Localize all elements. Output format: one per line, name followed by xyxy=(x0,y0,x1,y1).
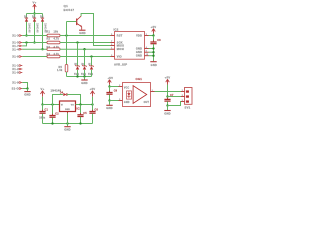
wire GND2 stub xyxy=(149,51,154,53)
svg-text:2: 2 xyxy=(119,85,120,87)
wire X1-6 to R4 xyxy=(22,56,47,58)
junction base column/RST row xyxy=(65,34,67,36)
svg-text:1: 1 xyxy=(111,48,112,50)
wire base column xyxy=(66,22,68,36)
IC2 pin GND3 xyxy=(145,55,149,57)
ground at X1 xyxy=(24,91,30,93)
svg-text:GND: GND xyxy=(81,81,87,85)
junction GND1 xyxy=(152,47,154,49)
wire X1-5 to R2 xyxy=(22,42,47,44)
svg-text:3: 3 xyxy=(119,99,120,101)
svg-text:VDD: VDD xyxy=(136,34,142,38)
svg-text:VI: VI xyxy=(61,105,64,107)
wire to IR ground xyxy=(109,101,111,105)
svg-text:C8: C8 xyxy=(157,39,161,42)
svg-text:GND: GND xyxy=(136,47,142,51)
svg-text:VO: VO xyxy=(71,105,75,107)
wire X1-3 to R1 xyxy=(22,35,47,37)
wire diode top rail xyxy=(27,13,43,15)
svg-text:+5V: +5V xyxy=(151,25,157,29)
wire Q1 base xyxy=(67,21,77,23)
capacitor C5 xyxy=(80,105,82,115)
junction D6/rail xyxy=(83,75,85,77)
junction VCC node xyxy=(108,85,110,87)
wire R2 to IC2 SCK xyxy=(60,42,111,44)
wire D1 to RST row xyxy=(26,22,28,36)
svg-text:GND: GND xyxy=(136,54,142,58)
svg-text:MOSI: MOSI xyxy=(117,47,124,51)
wire OUT to SV1 pin1 xyxy=(155,91,182,93)
svg-text:GND: GND xyxy=(64,128,70,132)
svg-text:4.7k: 4.7k xyxy=(54,38,60,41)
wire GND3 stub xyxy=(149,55,154,57)
svg-text:GND: GND xyxy=(136,50,142,54)
svg-text:GND: GND xyxy=(65,109,70,111)
svg-text:C6: C6 xyxy=(95,109,99,112)
wire output rail xyxy=(76,104,93,106)
junction D3/MOSI xyxy=(41,48,43,50)
capacitor C6 xyxy=(92,105,94,112)
junction D7 row xyxy=(90,55,92,57)
svg-text:9: 9 xyxy=(111,44,112,46)
OG1 OUT pin xyxy=(151,91,155,93)
OG1 amplifier triangle xyxy=(133,86,147,104)
diode D2 xyxy=(34,14,36,18)
svg-text:10: 10 xyxy=(146,54,149,56)
svg-text:5V1: 5V1 xyxy=(88,73,93,76)
IC2 pin GND1 xyxy=(145,48,149,50)
junction VDD node xyxy=(152,34,154,36)
wire X1-4 to R3 xyxy=(22,48,47,50)
svg-text:1: 1 xyxy=(152,90,153,92)
capacitor C7 xyxy=(167,97,169,100)
svg-text:GND: GND xyxy=(24,93,30,97)
wire V+ to diode rail xyxy=(34,10,36,14)
wire to SV1 ground xyxy=(167,106,169,111)
svg-text:X1-1: X1-1 xyxy=(12,64,19,68)
IR receiver OG1 box xyxy=(123,83,151,107)
wire D3 to MOSI row xyxy=(42,22,44,50)
svg-text:S1-G: S1-G xyxy=(12,87,19,91)
SV1 pin1 xyxy=(181,91,185,93)
svg-text:X1-9: X1-9 xyxy=(12,81,19,85)
wire to SV1 pin2 xyxy=(168,96,182,98)
ground at zeners xyxy=(81,79,87,81)
wire D4 bypass right xyxy=(67,95,81,105)
svg-text:C9: C9 xyxy=(114,90,118,93)
svg-text:2: 2 xyxy=(146,34,147,36)
svg-text:3: 3 xyxy=(182,100,183,102)
IC2 pin SCK xyxy=(111,42,115,44)
wire R5 to zener rail xyxy=(66,72,68,77)
ground at regulator xyxy=(64,126,70,128)
capacitor C8 xyxy=(153,40,155,41)
wire C8 to gnd column xyxy=(153,44,155,61)
wire bottom rail xyxy=(43,123,93,125)
svg-text:SV1: SV1 xyxy=(185,105,191,109)
diode D3 xyxy=(42,14,44,18)
wire to ground symbol xyxy=(67,124,69,127)
wire V+ down xyxy=(42,97,44,105)
svg-text:5V1: 5V1 xyxy=(81,73,86,76)
transistor Q1 xyxy=(76,19,78,26)
wire VDD to +5V xyxy=(149,35,154,37)
svg-text:100n: 100n xyxy=(39,117,45,119)
junction V+ input rail xyxy=(41,103,43,105)
svg-text:5V1: 5V1 xyxy=(74,73,79,76)
wire VCC to OG1 xyxy=(110,86,119,88)
svg-text:1.5k: 1.5k xyxy=(57,69,63,72)
capacitor C2 xyxy=(52,105,54,116)
svg-text:GND: GND xyxy=(79,31,85,35)
svg-text:V+: V+ xyxy=(41,87,45,91)
svg-text:C2: C2 xyxy=(55,113,59,116)
wire gnd to OG1 xyxy=(110,100,119,102)
wire Q1 collector to MISO xyxy=(81,14,110,46)
svg-text:+5V: +5V xyxy=(107,76,113,80)
svg-text:C5: C5 xyxy=(83,112,87,115)
svg-text:IC2: IC2 xyxy=(114,27,119,31)
svg-text:1: 1 xyxy=(182,90,183,92)
svg-text:C7: C7 xyxy=(170,94,174,97)
wire GND1 stub xyxy=(149,48,154,50)
svg-text:1N4148: 1N4148 xyxy=(35,23,38,33)
wire IC1 gnd pin xyxy=(67,112,69,114)
connector SV1 box xyxy=(185,88,193,105)
svg-text:5: 5 xyxy=(111,34,112,36)
wire rail to ground xyxy=(84,77,86,80)
IC2 pin GND2 xyxy=(145,51,149,53)
svg-text:1N4148: 1N4148 xyxy=(27,23,30,33)
wire D2 to SCK row xyxy=(34,22,36,43)
wire to C8 xyxy=(153,36,155,43)
ground at SV1 xyxy=(164,110,170,112)
svg-text:BC547: BC547 xyxy=(64,8,75,12)
wire R1 to IC2 RST xyxy=(60,35,111,37)
wire input rail xyxy=(43,104,60,106)
svg-text:+5V: +5V xyxy=(165,76,171,80)
junction GND3 xyxy=(152,55,154,57)
wire X1-7 jog to SCK row xyxy=(22,43,26,46)
SV1 pin3 xyxy=(181,101,185,103)
IC2 pin VDD xyxy=(145,35,149,37)
IC2 pin MOSI xyxy=(111,48,115,50)
junction gnd jog xyxy=(26,87,28,89)
junction C5 bottom xyxy=(79,122,81,124)
svg-text:6: 6 xyxy=(146,51,147,53)
junction gnd drop xyxy=(66,122,68,124)
wire R3 to IC2 MOSI xyxy=(60,48,111,50)
svg-text:X1-8: X1-8 xyxy=(12,71,19,75)
junction +5V/pin2 xyxy=(166,95,168,97)
svg-text:R2: R2 xyxy=(47,38,51,41)
junction C7 bottom xyxy=(166,104,168,106)
IC2 box xyxy=(115,32,145,60)
svg-text:OUT: OUT xyxy=(144,102,150,104)
svg-text:4.7k: 4.7k xyxy=(54,46,60,49)
wire +5V down to pin2 node xyxy=(167,85,169,97)
capacitor C1 xyxy=(42,105,44,112)
svg-text:MISO: MISO xyxy=(117,44,124,48)
wire gnd jog to pin3 xyxy=(168,102,182,106)
wire D4 bypass left xyxy=(53,95,63,105)
junction D1/RST xyxy=(25,34,27,36)
voltage regulator IC1 xyxy=(60,101,76,112)
svg-text:VCC: VCC xyxy=(124,88,130,90)
svg-text:D4: D4 xyxy=(60,92,64,95)
junction C5/D4 column xyxy=(79,103,81,105)
wire +5V to VCC node xyxy=(109,85,111,87)
svg-text:+5V: +5V xyxy=(90,87,96,91)
capacitor C9 xyxy=(109,87,111,93)
wire X1-9 to gnd jog xyxy=(22,83,27,89)
svg-text:X1-6: X1-6 xyxy=(12,55,19,59)
junction GND2 xyxy=(152,51,154,53)
IC2 pin VIO xyxy=(111,56,115,58)
wire S1-G to gnd xyxy=(22,88,27,90)
junction D2/SCK xyxy=(33,41,35,43)
svg-text:GND: GND xyxy=(124,102,130,104)
junction X1-7 jog xyxy=(25,41,27,43)
svg-text:GND: GND xyxy=(164,111,170,115)
svg-text:X1-5: X1-5 xyxy=(12,41,19,45)
svg-text:RST: RST xyxy=(117,34,123,38)
IC2 pin RST xyxy=(111,35,115,37)
junction D6/MOSI row xyxy=(83,48,85,50)
ground at Q1 emitter xyxy=(79,29,85,31)
ground at IR xyxy=(106,104,112,106)
svg-text:GND: GND xyxy=(151,63,157,67)
svg-text:AVR_ISP: AVR_ISP xyxy=(114,62,127,66)
wire R4 to IC2 VIO xyxy=(60,56,111,58)
svg-text:3: 3 xyxy=(111,55,112,57)
ground at IC2 xyxy=(150,61,156,63)
svg-text:X1-2: X1-2 xyxy=(12,67,19,71)
svg-text:X1-3: X1-3 xyxy=(12,34,19,38)
svg-text:10k: 10k xyxy=(54,31,59,34)
svg-text:OG1: OG1 xyxy=(136,77,143,81)
junction V+ rail xyxy=(33,12,35,14)
junction C2 column xyxy=(51,103,53,105)
OG1 photodiode xyxy=(127,91,132,99)
svg-text:GND: GND xyxy=(106,106,112,110)
svg-text:X1-4: X1-4 xyxy=(12,47,19,51)
zener rail xyxy=(67,76,92,78)
IC2 pin MISO xyxy=(111,45,115,47)
junction C2 bottom xyxy=(51,122,53,124)
svg-text:R1: R1 xyxy=(47,31,51,34)
svg-text:7: 7 xyxy=(111,41,112,43)
diode D1 xyxy=(26,14,28,18)
svg-text:VIO: VIO xyxy=(117,55,122,59)
wire jog down to ground xyxy=(27,89,29,92)
svg-text:V+: V+ xyxy=(33,1,37,5)
svg-text:2: 2 xyxy=(182,95,183,97)
svg-text:C1: C1 xyxy=(45,109,49,112)
junction IR gnd node xyxy=(108,99,110,101)
junction D5/rail xyxy=(76,75,78,77)
junction +5V/C6 column xyxy=(91,103,93,105)
junction D5/SCK row xyxy=(76,41,78,43)
SV1 pin2 xyxy=(181,96,185,98)
